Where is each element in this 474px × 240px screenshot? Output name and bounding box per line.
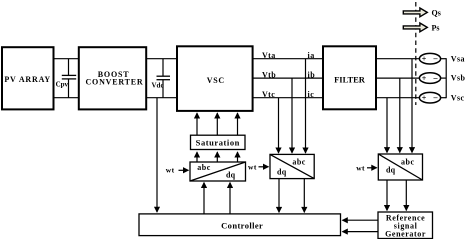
- wire Controller to dq-abc leg1: [203, 183, 205, 214]
- wire abc-dq middle to Controller leg1: [278, 179, 280, 213]
- svg-text:CONVERTER: CONVERTER: [85, 78, 143, 87]
- capacitor Cpv: [56, 59, 77, 98]
- wire Saturation to VSC leg2: [216, 113, 218, 135]
- svg-text:ia: ia: [308, 51, 315, 60]
- svg-text:abc: abc: [401, 157, 415, 166]
- transform block dq-abc left: [190, 162, 246, 181]
- wire PV to BOOST top: [54, 58, 79, 60]
- wire tap Vtc to abc-dq: [278, 98, 280, 153]
- wire PV to BOOST bottom: [54, 97, 79, 99]
- wire VSC to FILTER phase b: [253, 77, 323, 79]
- dashed measurement line: [415, 2, 417, 105]
- wire wt arrow right: [367, 167, 377, 169]
- svg-text:Vtc: Vtc: [262, 90, 275, 99]
- svg-text:Cpv: Cpv: [56, 80, 69, 88]
- block FILTER: [323, 46, 376, 109]
- svg-text:dq: dq: [386, 165, 396, 174]
- svg-text:Qs: Qs: [432, 8, 441, 17]
- svg-text:Vsb: Vsb: [451, 74, 466, 83]
- svg-text:Ps: Ps: [432, 23, 440, 32]
- power flow arrow Qs: [403, 8, 441, 17]
- wire VSC to FILTER phase a: [253, 58, 323, 60]
- block Reference signal Generator: [378, 212, 433, 239]
- wire Saturation to VSC leg1: [196, 113, 198, 135]
- wire abc-dq to Saturation leg2: [216, 152, 218, 162]
- svg-text:Generator: Generator: [385, 229, 426, 238]
- svg-text:VSC: VSC: [207, 76, 225, 85]
- wire tap Vtb to abc-dq: [291, 78, 293, 153]
- svg-text:Vta: Vta: [262, 51, 276, 60]
- svg-text:Controller: Controller: [221, 221, 263, 231]
- svg-text:dq: dq: [277, 168, 287, 177]
- wire FILTER to source c: [377, 97, 420, 99]
- svg-text:wt: wt: [248, 162, 257, 171]
- svg-text:dq: dq: [226, 170, 236, 179]
- svg-text:+: +: [422, 94, 427, 103]
- svg-text:+: +: [422, 74, 427, 83]
- wire FILTER to source b: [377, 77, 420, 79]
- block VSC: [177, 46, 253, 111]
- wire abc-dq to Saturation leg1: [196, 152, 198, 162]
- svg-text:Saturation: Saturation: [196, 138, 240, 148]
- wire Saturation to VSC leg3: [237, 113, 239, 135]
- block Saturation: [191, 135, 246, 149]
- wire abc-dq right to RefGen leg2: [405, 180, 407, 210]
- wire abc-dq right to RefGen leg1: [386, 180, 388, 210]
- svg-text:PV ARRAY: PV ARRAY: [4, 75, 51, 84]
- wire wt arrow left: [179, 169, 189, 171]
- wire tap Vsc to abc-dq: [386, 98, 388, 153]
- svg-text:wt: wt: [356, 163, 365, 172]
- svg-text:+: +: [422, 55, 427, 64]
- svg-text:Vdc: Vdc: [152, 82, 164, 90]
- wire RefGen to Controller upper: [343, 219, 378, 221]
- wire source bus right: [440, 58, 446, 98]
- wire Vdc sense to Controller: [156, 98, 158, 212]
- block PV ARRAY: [2, 47, 54, 109]
- svg-text:ib: ib: [308, 71, 316, 80]
- source Vsa: [419, 53, 464, 64]
- wire wt arrow middle: [259, 166, 269, 168]
- svg-text:Vsc: Vsc: [451, 93, 465, 102]
- wire tap Vsb to abc-dq: [399, 78, 401, 152]
- source Vsb: [419, 73, 465, 84]
- block Controller: [139, 214, 341, 236]
- wire FILTER to source a: [377, 58, 420, 60]
- wire abc-dq to Saturation leg3: [237, 152, 239, 162]
- svg-text:FILTER: FILTER: [334, 75, 366, 85]
- capacitor Vdc: [152, 59, 171, 98]
- wire VSC to FILTER phase c: [253, 97, 323, 99]
- wire tap Vta to abc-dq: [305, 59, 307, 153]
- svg-text:Vsa: Vsa: [451, 54, 465, 63]
- power flow arrow Ps: [403, 23, 439, 32]
- transform block abc-dq right: [378, 154, 422, 180]
- svg-text:Vtb: Vtb: [262, 71, 276, 80]
- transform block abc-dq middle: [270, 154, 314, 178]
- svg-text:abc: abc: [292, 157, 306, 166]
- svg-text:abc: abc: [197, 163, 211, 172]
- wire abc-dq middle to Controller leg2: [303, 179, 305, 213]
- wire Controller to dq-abc leg2: [229, 183, 231, 214]
- svg-text:wt: wt: [166, 165, 175, 174]
- wire BOOST to VSC top: [147, 58, 177, 60]
- wire BOOST to VSC bottom: [147, 97, 177, 99]
- wire RefGen to Controller lower: [343, 231, 378, 233]
- block BOOST CONVERTER: [79, 47, 146, 109]
- source Vsc: [419, 92, 464, 103]
- svg-text:ic: ic: [308, 90, 315, 99]
- wire tap Vsa to abc-dq: [411, 59, 413, 153]
